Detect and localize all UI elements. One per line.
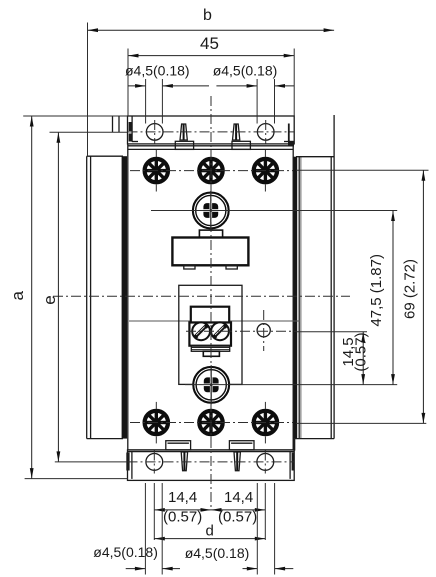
terminal block bottom tab (203, 351, 219, 356)
dimension lines top hole right diameter (216, 79, 294, 124)
centerline bottom hole right vertical (264, 451, 266, 474)
pole screw top-right (254, 159, 277, 182)
svg-text:ø4,5(0.18): ø4,5(0.18) (93, 544, 158, 560)
centerline tick bottom-right screw (264, 402, 266, 444)
centerline tick bottom-middle screw (210, 402, 212, 444)
centerline tick top-left screw (155, 150, 157, 192)
top flange hole right (257, 124, 274, 141)
left wing (DIN rail end, left) (87, 156, 123, 438)
top tab base right (232, 141, 250, 149)
bottom flange left corner slot (126, 452, 132, 479)
svg-text:d: d (206, 523, 214, 540)
right body black band (293, 157, 297, 439)
body step line segments (row of top screws) (129, 320, 300, 322)
dimension 47,5 (1.87) (368, 211, 395, 385)
label plate foot right (226, 265, 237, 269)
extension line 14,5 top (296, 331, 367, 333)
extension line 69 top (296, 169, 429, 171)
label plate screw base tab (199, 230, 222, 237)
svg-text:ø4,5(0.18): ø4,5(0.18) (125, 62, 190, 78)
right wing (DIN rail end, right) (295, 115, 335, 439)
svg-text:ø4,5(0.18): ø4,5(0.18) (213, 62, 278, 78)
centerline tick bottom-left screw (155, 402, 157, 444)
centerline top holes (128, 131, 295, 133)
top flange left corner slot (129, 117, 138, 142)
lower assembly box (179, 285, 242, 384)
dimension lines bottom hole left diameter (126, 483, 180, 575)
top tab base left (175, 141, 193, 149)
crosshair upper big screw / 47,5 extension (151, 210, 397, 212)
big captive screw upper (193, 191, 229, 230)
centerline horizontal main (53, 295, 350, 297)
svg-text:(0.57): (0.57) (163, 509, 202, 526)
top mounting flange (128, 116, 295, 146)
dimension 45 (128, 34, 294, 116)
crosshair lower big screw / 47,5 extension bottom (185, 384, 397, 386)
main body outline (128, 144, 293, 450)
top flange hole left (146, 124, 163, 141)
bottom flange right corner slot (290, 439, 295, 479)
svg-text:14,4: 14,4 (168, 489, 197, 506)
bottom flange hole right (257, 454, 274, 471)
dimension b (88, 7, 335, 156)
centerline tick top-right screw (264, 150, 266, 192)
pole screw bottom-right (254, 411, 277, 434)
svg-text:ø4,5(0.18): ø4,5(0.18) (185, 545, 250, 561)
centerline bottom screw row (130, 422, 293, 424)
terminal block lower section (189, 323, 231, 346)
centerline top hole left vertical (154, 120, 156, 144)
top clip tab right (233, 124, 240, 140)
pole screw top-middle (199, 159, 222, 182)
dimension 14,5 (0.57) right (340, 332, 370, 385)
bottom flange hole left (146, 454, 163, 471)
dimension 69 (2.72) (402, 170, 426, 423)
terminal screw right (211, 322, 229, 340)
centerline top hole right vertical (265, 120, 267, 144)
centerline terminal screws (186, 330, 296, 332)
dimension d (154, 523, 265, 541)
svg-text:(0.57): (0.57) (218, 509, 257, 526)
centerline small circle vertical (263, 310, 265, 351)
auxiliary small circle (257, 324, 270, 337)
dimension 14,4 pair bottom (154, 483, 265, 540)
centerline tick top-middle screw (210, 150, 212, 192)
bottom clip tab right (234, 452, 240, 471)
svg-text:47,5 (1.87): 47,5 (1.87) (368, 254, 385, 327)
dimension e (40, 132, 127, 462)
centerline top screw row (130, 170, 293, 172)
pole screw bottom-middle (199, 411, 222, 434)
extension line 69 bottom (296, 422, 426, 424)
centerline vertical main (210, 96, 212, 510)
svg-text:45: 45 (200, 34, 219, 53)
bottom clip tab left (181, 452, 187, 471)
centerline bottom hole left vertical (153, 451, 155, 474)
bottom tab base left (166, 441, 191, 450)
terminal block striped band (191, 346, 229, 352)
bottom tab base right (229, 441, 254, 450)
centerline bottom holes (128, 461, 295, 463)
svg-text:14,4: 14,4 (224, 489, 253, 506)
dimension lines bottom hole right diameter (243, 483, 294, 575)
terminal block upper section (191, 307, 229, 323)
dimension a (8, 116, 128, 479)
label plate foot left (184, 265, 195, 269)
svg-text:(0.57): (0.57) (353, 332, 370, 371)
pole screw bottom-left (145, 411, 168, 434)
svg-text:69 (2.72): 69 (2.72) (402, 259, 419, 319)
pole screw top-left (145, 159, 168, 182)
svg-text:e: e (40, 295, 59, 304)
top flange right corner slot (284, 124, 294, 147)
bottom mounting flange (128, 450, 295, 480)
left body black band (122, 156, 127, 438)
dimension lines top hole left diameter (128, 79, 209, 124)
left rail bracket stubs above wing (113, 116, 120, 132)
svg-text:b: b (203, 7, 212, 24)
big captive screw lower (193, 365, 229, 404)
terminal screw left (192, 322, 210, 340)
svg-text:a: a (8, 291, 27, 301)
label plate (172, 238, 248, 266)
top clip tab left (180, 124, 187, 140)
